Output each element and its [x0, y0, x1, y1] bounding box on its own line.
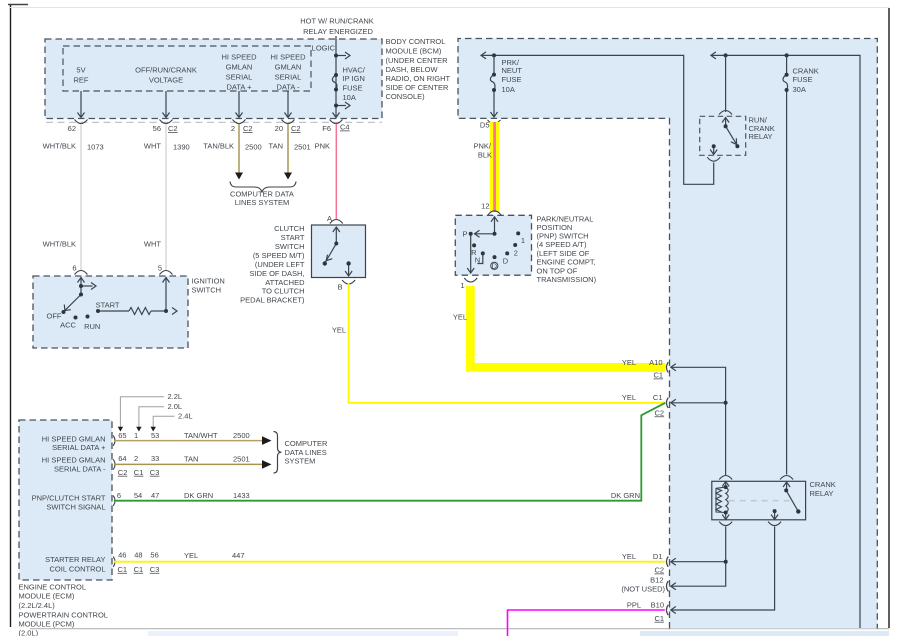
svg-text:30A: 30A: [793, 85, 806, 94]
svg-text:SERIAL DATA -: SERIAL DATA -: [54, 464, 106, 473]
ignition contacts: [79, 284, 83, 288]
svg-text:FUSE: FUSE: [502, 75, 522, 84]
run/crank relay box: [700, 116, 746, 155]
svg-text:PEDAL BRACKET): PEDAL BRACKET): [240, 296, 305, 305]
svg-text:COIL CONTROL: COIL CONTROL: [50, 565, 106, 574]
svg-text:(UNDER CENTER: (UNDER CENTER: [386, 56, 449, 65]
PRK/NEUT fuse: [493, 55, 495, 74]
clutch start switch box: [312, 225, 366, 278]
svg-text:2.4L: 2.4L: [178, 412, 193, 421]
svg-text:WHT: WHT: [144, 240, 161, 249]
page border top: [10, 7, 889, 9]
wire PNK: [335, 124, 337, 219]
svg-text:46: 46: [118, 551, 126, 560]
svg-text:54: 54: [134, 491, 142, 500]
svg-text:SWITCH: SWITCH: [275, 242, 305, 251]
svg-text:12: 12: [481, 202, 489, 211]
computer data lines brace (ECM): [274, 432, 282, 474]
svg-text:START: START: [96, 301, 120, 310]
svg-text:SYSTEM: SYSTEM: [285, 456, 316, 465]
svg-text:SIDE OF DASH,: SIDE OF DASH,: [249, 269, 304, 278]
engine callout 2.4L: [153, 416, 174, 429]
svg-text:SWITCH SIGNAL: SWITCH SIGNAL: [46, 502, 105, 511]
D5 connector: [488, 120, 501, 124]
svg-text:1: 1: [460, 281, 464, 290]
svg-text:D1: D1: [653, 552, 663, 561]
svg-text:PPL: PPL: [627, 601, 641, 610]
svg-text:2.2L: 2.2L: [168, 392, 183, 401]
svg-text:DK GRN: DK GRN: [611, 491, 640, 500]
svg-text:1: 1: [134, 431, 138, 440]
svg-text:447: 447: [232, 551, 245, 560]
svg-text:6: 6: [72, 264, 76, 273]
wire YEL 447: [114, 561, 665, 563]
PNP switch box: [455, 215, 531, 275]
svg-text:1: 1: [521, 236, 525, 245]
svg-text:RELAY ENERGIZED: RELAY ENERGIZED: [303, 27, 373, 36]
svg-text:MODULE (ECM): MODULE (ECM): [19, 592, 75, 601]
fuse block internal wire coil to D1/B12: [671, 527, 726, 587]
svg-text:(UNDER LEFT: (UNDER LEFT: [255, 260, 305, 269]
svg-text:C2: C2: [118, 468, 128, 477]
svg-text:2501: 2501: [294, 143, 311, 152]
ignition connector caps: [75, 271, 88, 275]
svg-text:P: P: [462, 229, 467, 238]
svg-text:CONSOLE): CONSOLE): [386, 92, 426, 101]
svg-text:STARTER RELAY: STARTER RELAY: [45, 555, 105, 564]
engine callout 2.0L: [139, 407, 164, 429]
connector A10: [666, 362, 675, 372]
svg-text:DASH, BELOW: DASH, BELOW: [386, 65, 439, 74]
svg-text:ENGINE COMPT,: ENGINE COMPT,: [537, 258, 596, 267]
BCM connector dashed line: [46, 121, 382, 123]
svg-text:HOT W/ RUN/CRANK: HOT W/ RUN/CRANK: [300, 17, 374, 26]
svg-text:B10: B10: [651, 601, 664, 610]
page border top-left stub: [8, 4, 28, 6]
svg-text:53: 53: [151, 431, 159, 440]
crank relay connector arcs: [719, 476, 793, 526]
crank relay coil: [716, 482, 729, 520]
svg-text:1073: 1073: [87, 143, 104, 152]
svg-text:65: 65: [118, 431, 126, 440]
svg-text:2: 2: [231, 124, 235, 133]
svg-text:FUSE: FUSE: [343, 84, 363, 93]
page border left: [10, 5, 12, 627]
svg-text:D5: D5: [480, 121, 490, 130]
wire TAN 2501: [287, 124, 289, 173]
BCM internal wire pin2: [238, 91, 240, 117]
wire PPL: [508, 610, 665, 636]
connector D1: [666, 557, 675, 567]
svg-text:47: 47: [151, 491, 159, 500]
svg-text:C1: C1: [655, 614, 665, 623]
top bus from run/crank relay output: [481, 52, 860, 628]
svg-text:WHT: WHT: [144, 142, 161, 151]
svg-text:C1: C1: [134, 468, 144, 477]
svg-text:(LEFT SIDE OF: (LEFT SIDE OF: [537, 249, 590, 258]
svg-text:YEL: YEL: [622, 552, 636, 561]
crank relay box: [712, 481, 806, 520]
svg-text:YEL: YEL: [184, 551, 198, 560]
wire YEL thick from PNP to A10: [470, 286, 665, 367]
svg-text:TAN/WHT: TAN/WHT: [184, 431, 218, 440]
svg-text:OFF/RUN/CRANK: OFF/RUN/CRANK: [135, 66, 197, 75]
CRANK fuse: [786, 55, 788, 74]
page border right: [888, 8, 890, 628]
fuse block / underhood box (right big box): [458, 39, 877, 629]
svg-text:C1: C1: [118, 565, 128, 574]
BCM inner box: [63, 46, 311, 91]
svg-text:WHT/BLK: WHT/BLK: [43, 142, 76, 151]
clutch switch internals: [326, 227, 353, 276]
svg-text:ON TOP OF: ON TOP OF: [537, 266, 578, 275]
fuse block internal wire A10 to crank relay coil: [671, 367, 726, 475]
svg-text:D: D: [492, 262, 498, 271]
svg-text:B: B: [337, 283, 342, 292]
run/crank relay internals: [710, 118, 737, 155]
svg-text:5: 5: [158, 264, 162, 273]
svg-text:CLUTCH: CLUTCH: [274, 224, 304, 233]
svg-text:(5 SPEED M/T): (5 SPEED M/T): [253, 251, 305, 260]
svg-text:C2: C2: [168, 124, 178, 133]
svg-text:N: N: [475, 256, 480, 265]
page bottom cut line: [30, 628, 889, 630]
svg-text:RUN: RUN: [84, 322, 100, 331]
svg-text:NEUT: NEUT: [502, 66, 523, 75]
svg-text:ATTACHED: ATTACHED: [265, 278, 305, 287]
svg-text:HI SPEED GMLAN: HI SPEED GMLAN: [42, 456, 106, 465]
svg-text:GMLAN: GMLAN: [275, 63, 302, 72]
next section strip right: [640, 631, 889, 636]
wire TAN/BLK 2500: [238, 124, 240, 173]
connector B12: [666, 581, 675, 591]
svg-text:SIDE OF CENTER: SIDE OF CENTER: [386, 83, 450, 92]
wire TAN/WHT 2500: [114, 440, 262, 442]
svg-text:F6: F6: [322, 124, 331, 133]
svg-text:C2: C2: [243, 124, 253, 133]
svg-text:HI SPEED: HI SPEED: [221, 53, 257, 62]
svg-text:TAN/BLK: TAN/BLK: [203, 142, 234, 151]
svg-text:6: 6: [117, 491, 121, 500]
svg-text:RELAY: RELAY: [810, 489, 834, 498]
ECM box: [19, 420, 112, 580]
svg-text:MODULE (BCM): MODULE (BCM): [386, 47, 442, 56]
svg-text:YEL: YEL: [453, 313, 467, 322]
svg-text:C1: C1: [654, 371, 664, 380]
svg-text:48: 48: [134, 551, 142, 560]
svg-text:56: 56: [153, 124, 161, 133]
svg-text:LINES SYSTEM: LINES SYSTEM: [235, 198, 290, 207]
wire PNK/BLK highlighted: [490, 122, 500, 212]
svg-text:TAN: TAN: [269, 142, 283, 151]
svg-text:LOGIC: LOGIC: [312, 44, 336, 53]
svg-text:2500: 2500: [245, 143, 262, 152]
svg-text:33: 33: [151, 454, 159, 463]
svg-text:2501: 2501: [233, 454, 250, 463]
svg-text:C3: C3: [150, 468, 160, 477]
svg-text:REF: REF: [74, 76, 89, 85]
svg-text:FUSE: FUSE: [793, 75, 813, 84]
BCM internal wire pin62: [78, 36, 351, 118]
svg-text:BLK: BLK: [478, 150, 492, 159]
PNP internals: [467, 217, 498, 274]
svg-text:20: 20: [275, 124, 283, 133]
svg-text:5V: 5V: [76, 66, 85, 75]
svg-text:DK GRN: DK GRN: [184, 491, 213, 500]
svg-text:ACC: ACC: [60, 321, 76, 330]
svg-text:DATA +: DATA +: [227, 83, 253, 92]
svg-text:GMLAN: GMLAN: [226, 63, 253, 72]
svg-text:WHT/BLK: WHT/BLK: [43, 240, 76, 249]
svg-text:1433: 1433: [233, 491, 250, 500]
svg-text:RADIO, ON RIGHT: RADIO, ON RIGHT: [386, 74, 451, 83]
svg-text:1390: 1390: [173, 143, 190, 152]
svg-text:C2: C2: [291, 124, 301, 133]
next section strip left: [148, 631, 458, 636]
svg-text:SERIAL: SERIAL: [226, 73, 253, 82]
connector C1: [666, 398, 675, 408]
svg-text:MODULE (PCM): MODULE (PCM): [19, 620, 75, 629]
svg-text:TRANSMISSION): TRANSMISSION): [537, 275, 597, 284]
svg-text:BODY CONTROL: BODY CONTROL: [386, 37, 446, 46]
svg-text:YEL: YEL: [622, 393, 636, 402]
svg-text:C2: C2: [655, 408, 665, 417]
svg-text:OFF: OFF: [47, 312, 62, 321]
svg-text:56: 56: [150, 551, 158, 560]
connector B10: [666, 605, 675, 615]
svg-text:SERIAL: SERIAL: [275, 73, 302, 82]
wire WHT/BLK 1073: [80, 124, 82, 271]
wire WHT 1390: [165, 124, 167, 271]
svg-text:PNK: PNK: [315, 142, 330, 151]
ignition switch internals: [64, 277, 177, 315]
BCM bottom connector cups: [75, 120, 343, 124]
svg-text:TAN: TAN: [184, 454, 198, 463]
BCM logic wire with HVAC/IP IGN fuse: [335, 36, 337, 117]
HVAC/IP IGN fuse symbol: [332, 75, 337, 90]
fuse block internal wire C1: [671, 402, 726, 404]
svg-text:C2: C2: [655, 566, 665, 575]
svg-text:HI SPEED GMLAN: HI SPEED GMLAN: [42, 434, 106, 443]
svg-text:C4: C4: [340, 123, 350, 132]
svg-text:10A: 10A: [502, 85, 515, 94]
svg-text:2: 2: [514, 248, 518, 257]
BCM internal wire pin56: [165, 91, 167, 117]
svg-text:YEL: YEL: [622, 358, 636, 367]
svg-text:RELAY: RELAY: [749, 132, 773, 141]
svg-text:ENGINE CONTROL: ENGINE CONTROL: [19, 582, 87, 591]
top bus from battery corner: [711, 55, 860, 628]
BCM outer box: [45, 39, 382, 119]
svg-text:VOLTAGE: VOLTAGE: [149, 76, 183, 85]
circled D: [491, 262, 498, 269]
ECM right-edge connectors: [113, 435, 115, 567]
svg-text:(NOT USED): (NOT USED): [621, 585, 665, 594]
svg-text:C1: C1: [653, 393, 663, 402]
svg-text:10A: 10A: [343, 93, 356, 102]
svg-text:64: 64: [118, 454, 126, 463]
svg-text:C3: C3: [150, 565, 160, 574]
crank relay switch: [771, 482, 798, 520]
svg-text:D: D: [503, 256, 509, 265]
svg-text:IGNITION: IGNITION: [192, 277, 225, 286]
svg-text:2: 2: [134, 454, 138, 463]
svg-text:(2.2L/2.4L): (2.2L/2.4L): [19, 601, 56, 610]
svg-text:(2.0L): (2.0L): [19, 629, 39, 636]
svg-text:HI SPEED: HI SPEED: [270, 53, 306, 62]
ignition switch box: [33, 276, 188, 348]
svg-text:IP IGN: IP IGN: [343, 74, 365, 83]
svg-text:62: 62: [68, 124, 76, 133]
svg-text:B12: B12: [650, 576, 663, 585]
svg-text:DATA -: DATA -: [276, 83, 300, 92]
svg-text:A10: A10: [649, 358, 662, 367]
svg-text:TO CLUTCH: TO CLUTCH: [262, 287, 305, 296]
svg-text:(4 SPEED A/T): (4 SPEED A/T): [537, 240, 588, 249]
svg-text:YEL: YEL: [332, 326, 346, 335]
wire TAN 2501: [114, 463, 262, 465]
svg-text:START: START: [281, 233, 305, 242]
svg-text:SWITCH: SWITCH: [192, 286, 222, 295]
svg-text:CRANK: CRANK: [810, 480, 836, 489]
fuse block internal wire B10: [671, 527, 775, 611]
svg-text:POWERTRAIN CONTROL: POWERTRAIN CONTROL: [19, 610, 108, 619]
BCM internal wire pin20: [287, 91, 289, 117]
computer data lines brace (top): [230, 182, 296, 193]
crank relay actuation dashed link: [729, 500, 790, 502]
svg-text:2.0L: 2.0L: [168, 402, 183, 411]
svg-text:C1: C1: [134, 565, 144, 574]
engine callout 2.2L: [120, 397, 164, 429]
svg-text:SERIAL DATA +: SERIAL DATA +: [52, 443, 106, 452]
wire YEL from clutch switch to C1: [349, 283, 665, 403]
wire DK GRN 1433: [114, 403, 665, 501]
svg-text:2500: 2500: [233, 431, 250, 440]
